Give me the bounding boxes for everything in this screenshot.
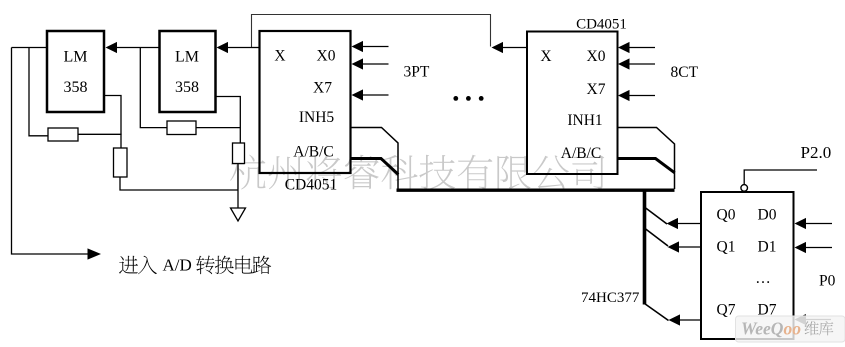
svg-text:X0: X0 [587,48,606,65]
wire R2 bottom to ground line [120,177,238,190]
resistor R3 [167,121,196,135]
svg-text:358: 358 [175,79,199,96]
wire LM358-1 output down [104,96,121,149]
input arrow X0 upper (U4) [629,47,655,49]
svg-text:D0: D0 [758,207,777,224]
svg-text:358: 358 [64,79,88,96]
WeeQoo watermark [736,316,845,342]
latch U5 74HC377 [701,192,794,339]
svg-text:X0: X0 [317,48,336,65]
svg-text:A/D: A/D [163,256,192,275]
input arrow X0 lower (U3) [362,63,389,65]
mux U4 CD4051 [527,32,618,175]
watermark 杭州将睿科技有限公司 [230,155,604,190]
wire R1 to node [78,133,122,135]
svg-text:INH5: INH5 [299,109,335,126]
op-amp U1 LM358 [47,31,104,112]
wire R3 to node [196,127,240,129]
bus diagonal to Q7 [645,304,669,321]
input arrow X7 (U4) [629,95,655,97]
svg-text:3PT: 3PT [404,64,430,81]
wire branch to R1 [29,48,48,136]
svg-text:A/B/C: A/B/C [561,145,601,162]
resistor R1 [48,128,78,141]
wire top feedback line [252,15,491,48]
input arrow X0 lower (U4) [629,63,655,65]
Q1 wire + arrow [679,246,701,248]
svg-text:P2.0: P2.0 [801,143,832,162]
svg-text:Q1: Q1 [717,239,736,256]
input arrow X7 (U3) [362,94,389,96]
svg-text:CD4051: CD4051 [576,17,627,33]
Q7 wire + arrow [680,319,701,321]
label 进入 A/D 转换电路 [119,256,157,275]
INH5 wire [351,128,399,189]
D7 wire + arrow [806,319,831,321]
Q0 wire + arrow [678,223,701,225]
wire CD4051-2 X to arrow [503,47,528,49]
wire LM358-2 to LM358-1 with arrow [117,47,160,49]
A/B/C fat wire (right) [618,159,675,173]
svg-text:X: X [540,48,551,65]
bus vertical drop [643,189,647,305]
wire LM358-2 output down [216,97,241,144]
input arrow X0 upper (U3) [362,46,389,48]
A/B/C fat wire (left) [351,159,399,175]
svg-text:D1: D1 [758,239,777,256]
svg-text:LM: LM [64,49,88,66]
wire R4 to ground [237,164,239,209]
svg-text:CD4051: CD4051 [285,177,338,194]
svg-text:WeeQoo: WeeQoo [741,319,801,339]
bus horizontal [397,189,675,192]
D0 wire + arrow [806,223,832,225]
svg-text:8CT: 8CT [671,64,699,81]
svg-text:P0: P0 [819,273,836,290]
wire into LM358-2 with arrow [227,47,252,49]
wire CD4051-1 X stub [252,47,260,49]
wire branch to R3 [140,48,167,128]
op-amp U2 LM358 [160,31,216,112]
svg-text:Q7: Q7 [717,302,736,319]
svg-text:INH1: INH1 [567,112,602,129]
resistor R4 [233,143,245,164]
arrow to A/D circuit [88,248,102,259]
clock bubble [741,185,748,192]
D1 wire + arrow [806,247,832,249]
wire far-left vertical to A/D [12,48,89,255]
svg-text:X: X [274,48,285,65]
svg-text:Q0: Q0 [717,207,736,224]
svg-text:LM: LM [175,49,199,66]
svg-text:A/B/C: A/B/C [293,144,333,161]
svg-text:…: … [755,270,771,287]
mux U3 CD4051 [260,31,351,173]
resistor R2 [114,148,128,177]
svg-text:74HC377: 74HC377 [581,290,640,306]
bus diagonal to Q0 [645,208,667,225]
svg-text:X7: X7 [313,80,332,97]
svg-text:X7: X7 [587,81,606,98]
bus diagonal to Q1 [645,229,668,247]
P2.0 wire [744,170,817,184]
INH1 wire [618,128,675,190]
wire LM358-1 left stub [12,47,48,49]
ground symbol [231,208,246,221]
ellipsis dots [453,96,458,101]
